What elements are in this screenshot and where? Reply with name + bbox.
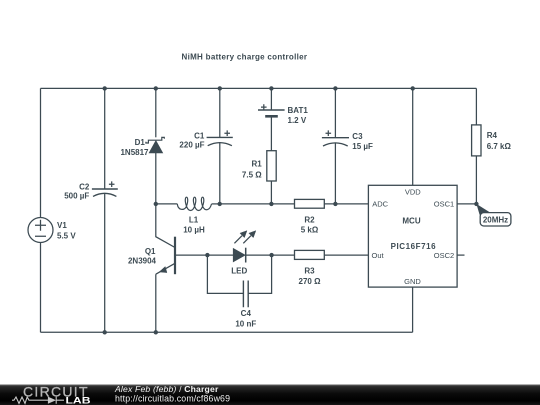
- diode D1 (Schottky): [146, 137, 164, 152]
- svg-text:PIC16F716: PIC16F716: [391, 242, 437, 251]
- svg-text:ADC: ADC: [372, 200, 388, 209]
- wire L1 junction to coil: [156, 203, 178, 205]
- resistor R4: [472, 125, 481, 156]
- wire C3 branch upper: [334, 88, 336, 137]
- svg-text:L1: L1: [189, 215, 199, 224]
- svg-text:220 µF: 220 µF: [179, 141, 204, 150]
- capacitor C4: [243, 281, 248, 308]
- svg-text:V1: V1: [57, 221, 67, 230]
- svg-text:20MHz: 20MHz: [483, 216, 508, 225]
- wire C2 branch lower: [104, 194, 106, 333]
- logo diode: [38, 397, 64, 404]
- wire C1 branch lower: [219, 142, 221, 204]
- svg-text:LED: LED: [231, 266, 247, 275]
- svg-text:MCU: MCU: [402, 217, 420, 226]
- logo zigzag resistor: [12, 397, 38, 403]
- callout pointer 20MHz: [476, 204, 490, 215]
- wire C2 branch upper: [104, 88, 106, 189]
- wire D1 branch from top rail: [155, 88, 157, 137]
- svg-text:6.7 kΩ: 6.7 kΩ: [487, 142, 512, 151]
- svg-text:OSC2: OSC2: [434, 251, 454, 260]
- svg-text:1N5817: 1N5817: [120, 148, 149, 157]
- wire OSC1 to junction: [457, 203, 476, 205]
- wire BAT1 to R1: [270, 118, 272, 151]
- node bottom rail C2: [103, 330, 107, 334]
- svg-text:http://circuitlab.com/cf86w69: http://circuitlab.com/cf86w69: [115, 394, 230, 404]
- wire top rail corner to R4: [475, 88, 477, 125]
- node top rail VDD: [411, 86, 415, 90]
- resistor R2: [295, 199, 325, 208]
- wire LED anode: [207, 254, 233, 256]
- inductor L1: [177, 197, 211, 210]
- wire GND branch: [412, 287, 414, 332]
- svg-text:OSC1: OSC1: [434, 200, 454, 209]
- node LED anode: [205, 253, 209, 257]
- svg-text:C1: C1: [194, 131, 205, 140]
- svg-text:R4: R4: [487, 131, 498, 140]
- MCU U1 box: [368, 185, 457, 287]
- node top rail C3: [333, 86, 337, 90]
- svg-text:5 kΩ: 5 kΩ: [301, 225, 319, 234]
- capacitor C3: [322, 130, 349, 146]
- resistor R1: [267, 151, 276, 181]
- node top rail D1: [154, 86, 158, 90]
- svg-text:7.5 Ω: 7.5 Ω: [242, 171, 262, 180]
- wire R1 to mid rail: [270, 181, 272, 204]
- wire Q1 emitter to bottom rail: [155, 274, 157, 332]
- LED arrows: [234, 231, 255, 244]
- wire left rail lower: [40, 243, 42, 333]
- wire C4 left branch: [207, 255, 243, 293]
- wire LED to R3: [272, 254, 295, 256]
- wire VDD branch: [412, 88, 414, 185]
- node mid rail C1: [218, 202, 222, 206]
- transistor Q1: [156, 237, 175, 275]
- svg-text:R3: R3: [304, 267, 315, 276]
- wire BAT1 branch from top rail: [270, 88, 272, 110]
- svg-text:R2: R2: [304, 216, 315, 225]
- capacitor C1: [207, 130, 233, 145]
- svg-text:BAT1: BAT1: [288, 106, 309, 115]
- node top rail BAT1: [269, 86, 273, 90]
- resistor R3: [295, 250, 325, 259]
- svg-text:10 nF: 10 nF: [235, 319, 256, 328]
- node mid rail R1: [269, 202, 273, 206]
- callout 20MHz box: [480, 213, 511, 226]
- node mid rail L1 left: [154, 202, 158, 206]
- wire R2 to MCU ADC: [324, 203, 368, 205]
- node OSC1: [474, 202, 478, 206]
- svg-text:NiMH battery charge controller: NiMH battery charge controller: [182, 52, 308, 61]
- capacitor C2: [92, 181, 118, 196]
- wire C1 branch upper: [219, 88, 221, 137]
- node mid rail C3: [333, 202, 337, 206]
- svg-text:10 µH: 10 µH: [183, 225, 205, 234]
- svg-text:C4: C4: [241, 309, 252, 318]
- wire bottom rail: [41, 331, 413, 333]
- node top rail C2: [103, 86, 107, 90]
- svg-text:C3: C3: [352, 132, 363, 141]
- wire R3 to MCU Out: [324, 254, 368, 256]
- wire C3 branch lower: [334, 143, 336, 204]
- wire top rail: [41, 87, 477, 89]
- voltage source V1: [28, 218, 53, 243]
- wire left rail upper: [40, 88, 42, 217]
- svg-text:Alex Feb (febb) / Charger: Alex Feb (febb) / Charger: [114, 384, 219, 394]
- svg-text:2N3904: 2N3904: [128, 257, 157, 266]
- wire Q1 collector from L1 junction: [156, 204, 175, 248]
- node bottom rail Q1: [154, 330, 158, 334]
- svg-text:270 Ω: 270 Ω: [299, 277, 322, 286]
- svg-text:Out: Out: [372, 251, 385, 260]
- wire Q1 base to LED junction: [175, 254, 207, 256]
- svg-text:1.2 V: 1.2 V: [288, 116, 307, 125]
- wire OSC2 stub: [457, 254, 464, 256]
- svg-text:VDD: VDD: [405, 188, 421, 197]
- node top rail C1: [218, 86, 222, 90]
- svg-text:500 µF: 500 µF: [64, 192, 89, 201]
- node LED cathode: [269, 253, 273, 257]
- svg-text:C2: C2: [79, 182, 90, 191]
- svg-text:LAB: LAB: [66, 395, 91, 405]
- wire coil to C1 junction: [212, 203, 220, 205]
- wire LED cathode: [246, 254, 272, 256]
- battery BAT1: [258, 104, 285, 116]
- svg-text:5.5 V: 5.5 V: [57, 232, 76, 241]
- LED D2: [233, 248, 245, 263]
- wire R4 to OSC1 junction: [475, 156, 477, 204]
- svg-text:15 µF: 15 µF: [352, 142, 373, 151]
- wire D1 to L1 junction: [155, 153, 157, 204]
- footer bar: [0, 385, 540, 405]
- wire mid rail C1 to R2: [220, 203, 295, 205]
- svg-text:Q1: Q1: [145, 247, 156, 256]
- svg-text:R1: R1: [251, 160, 262, 169]
- wire C4 right branch: [248, 255, 271, 293]
- svg-text:GND: GND: [404, 277, 421, 286]
- svg-text:D1: D1: [135, 138, 146, 147]
